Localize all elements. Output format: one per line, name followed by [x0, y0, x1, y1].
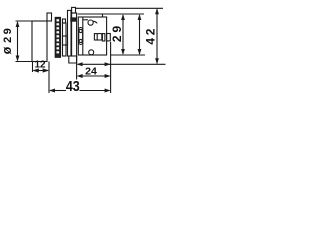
dimension 43: arrow right: [105, 89, 111, 93]
dimension 12: arrow left: [33, 68, 39, 72]
unlabeled dimension: arrow down: [138, 49, 142, 55]
dimension phi29: arrow down: [16, 56, 20, 62]
small upper box of body column: [63, 19, 66, 23]
dimension 12: arrow right: [43, 68, 49, 72]
adapter block: [68, 10, 72, 56]
contact block inner top line: [83, 19, 88, 21]
dimension 12: dimension line: [34, 70, 49, 72]
dimension 24 upper: arrow left: [77, 62, 83, 66]
terminal square: [94, 34, 101, 40]
dimension 24 lower: arrow left: [77, 74, 83, 78]
dimension 24 lower: arrow right: [105, 74, 111, 78]
small circle lower on strip: [79, 39, 82, 42]
dimension 42: arrow up: [155, 8, 159, 14]
small circle upper on strip: [79, 29, 82, 32]
dimension 12 / 43 shared extension line: [48, 62, 50, 94]
small latch box mid column: [63, 36, 68, 45]
svg-text:2: 2: [2, 37, 14, 43]
adapter rear column: [72, 13, 77, 56]
dimension phi29: arrow up: [16, 21, 20, 27]
dimension 29: extension line top: [78, 13, 144, 15]
dimension 29: arrow down: [121, 49, 125, 55]
rear tab on right edge: [107, 34, 111, 41]
dimension 42: arrow down: [155, 58, 159, 64]
contact block left strip: [82, 17, 84, 55]
knurled mounting ring: [55, 17, 60, 57]
dimension 29: arrow up: [121, 14, 125, 20]
svg-text:9: 9: [110, 26, 124, 33]
adapter dark section: [71, 18, 76, 22]
terminal square divider: [96, 34, 98, 40]
inner rect at right edge: [102, 34, 105, 41]
svg-text:12: 12: [34, 59, 46, 70]
anti-rotation tab on head: [47, 13, 52, 21]
dimension 24: extension line left: [76, 56, 78, 80]
contact block body (side view): [78, 17, 106, 55]
unlabeled dimension: arrow up: [138, 14, 142, 20]
dimension 12: extension line left: [32, 62, 34, 73]
dimension 24 upper: arrow right: [105, 62, 111, 66]
svg-text:4: 4: [144, 38, 158, 45]
bottom foot (U shape): [69, 56, 77, 63]
thin body column: [63, 23, 67, 56]
svg-text:43: 43: [66, 78, 80, 94]
svg-text:9: 9: [2, 28, 14, 34]
terminal screw top: [88, 20, 93, 25]
knurl white windows: [57, 19, 60, 53]
svg-text:ø: ø: [0, 46, 14, 54]
svg-text:24: 24: [85, 66, 97, 78]
screw slot top: [93, 21, 97, 23]
dimension 42: extension line top: [76, 7, 164, 9]
unlabeled dimension line (29 duplicate): [139, 15, 141, 54]
push button head (side view): [32, 21, 47, 62]
dimension 43: arrow left: [49, 89, 55, 93]
dimension 42: dimension line: [156, 9, 158, 63]
dimension 29: extension line bottom: [110, 54, 145, 56]
svg-text:2: 2: [144, 28, 158, 35]
dimension 24 lower: dimension line: [78, 75, 110, 77]
dimension phi29: extension line bottom: [16, 61, 34, 63]
dimension 24 upper line with 42 bottom extension: [78, 63, 166, 65]
dimension 43: dimension line: [50, 90, 66, 92]
dimension phi29: dimension line: [17, 22, 19, 61]
svg-text:2: 2: [110, 35, 124, 42]
dimension 29: dimension line: [122, 15, 124, 54]
top latch lever: [72, 7, 76, 13]
terminal screw bottom: [89, 50, 94, 55]
capsule slot on strip: [79, 28, 83, 45]
dimension phi29: extension line top: [16, 20, 33, 22]
dimension 24/43: extension line right: [110, 42, 112, 93]
latch post on top of contact block: [102, 14, 104, 17]
